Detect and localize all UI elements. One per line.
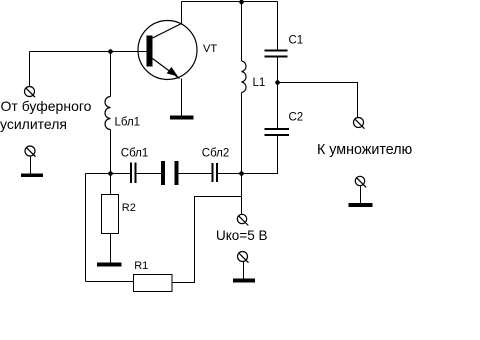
wire R1 right lead to Uko node bbox=[172, 197, 242, 283]
capacitor middle thick plates bbox=[161, 161, 165, 185]
wire C1 to C2 bbox=[277, 57, 279, 129]
ground (output) bbox=[349, 203, 373, 207]
svg-text:Сбл2: Сбл2 bbox=[202, 148, 229, 160]
transistor VT circle bbox=[138, 21, 197, 80]
capacitor Cbl2 plates bbox=[213, 163, 218, 182]
capacitor C1 plates bbox=[265, 51, 288, 57]
svg-text:К умножителю: К умножителю bbox=[317, 142, 413, 158]
wire C2 bottom to bias junction bbox=[242, 135, 278, 174]
terminal input (circle with slash) bbox=[25, 87, 35, 97]
svg-text:VT: VT bbox=[203, 43, 217, 55]
wire emitter vertical bbox=[181, 79, 183, 116]
wire R2 top lead bbox=[110, 174, 112, 195]
wire input vertical bbox=[29, 52, 31, 87]
inductor Lbl1 coil bbox=[105, 97, 110, 130]
capacitor Cbl1 plates bbox=[131, 163, 136, 184]
svg-text:От буферного: От буферного bbox=[1, 98, 92, 114]
svg-text:R2: R2 bbox=[122, 202, 136, 214]
ground (R2) bbox=[97, 263, 122, 267]
wire bias rail left segment bbox=[86, 173, 132, 175]
svg-text:Uко=5 В: Uко=5 В bbox=[216, 228, 267, 243]
wire between thick capacitor and Cbl2 bbox=[179, 173, 213, 175]
terminal Uko (circle with slash) bbox=[237, 214, 246, 223]
ground (left lower) bbox=[21, 174, 43, 178]
svg-text:C2: C2 bbox=[289, 112, 304, 124]
wire output to terminal bbox=[278, 83, 358, 119]
wire collector vertical bbox=[181, 2, 183, 24]
inductor L1 bottom lead bbox=[241, 93, 243, 215]
inductor L1 coil bbox=[242, 61, 247, 93]
wire left vertical feedback bbox=[85, 174, 87, 282]
ground (emitter) bbox=[170, 116, 194, 120]
inductor Lbl1 bottom lead bbox=[110, 130, 112, 174]
wire base horizontal bbox=[30, 51, 147, 53]
ground (Uko) bbox=[233, 279, 255, 283]
terminal output (circle with slash) bbox=[354, 118, 364, 128]
svg-text:Lбл1: Lбл1 bbox=[115, 117, 141, 129]
resistor R1 body bbox=[134, 275, 173, 292]
svg-text:L1: L1 bbox=[253, 77, 266, 89]
wire left lower terminal to ground bbox=[30, 156, 32, 174]
wire top rail bbox=[182, 1, 278, 3]
inductor Lbl1 top lead bbox=[110, 52, 112, 97]
wire R1 left lead bbox=[86, 281, 134, 283]
wire output ground lead bbox=[360, 186, 362, 204]
transistor VT emitter stroke bbox=[153, 59, 180, 79]
node C1 C2 output junction bbox=[275, 80, 280, 85]
inductor L1 top lead bbox=[241, 2, 243, 62]
svg-text:C1: C1 bbox=[289, 35, 304, 47]
terminal left lower (circle with slash) bbox=[25, 146, 35, 156]
terminal Uko ground side (circle with slash) bbox=[238, 252, 248, 262]
resistor R2 body bbox=[102, 195, 119, 234]
transistor VT base bar bbox=[147, 36, 153, 67]
transistor VT collector stroke bbox=[153, 24, 182, 39]
transistor VT emitter arrow bbox=[167, 67, 178, 77]
node bias junction L1 bbox=[239, 171, 244, 176]
svg-text:Сбл1: Сбл1 bbox=[121, 148, 148, 160]
node base junction bbox=[108, 49, 113, 54]
wire C1 branch top bbox=[277, 2, 279, 51]
svg-text:усилителя: усилителя bbox=[0, 116, 67, 132]
svg-text:R1: R1 bbox=[134, 260, 148, 272]
terminal output ground side (circle with slash) bbox=[355, 176, 364, 185]
node bias junction Lbl1 bbox=[108, 171, 113, 176]
wire between Cbl1 and thick capacitor bbox=[136, 173, 162, 175]
wire R2 bottom lead bbox=[110, 234, 112, 263]
wire bias rail right segment bbox=[217, 173, 278, 175]
capacitor C2 plates bbox=[265, 129, 290, 135]
node top rail junction bbox=[239, 0, 244, 4]
wire Uko ground lead bbox=[243, 262, 245, 279]
